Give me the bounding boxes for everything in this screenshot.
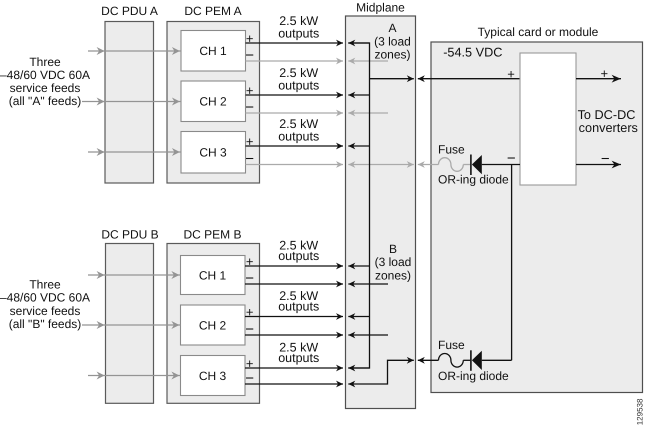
box CH3 PEM A <box>181 132 246 174</box>
label plus left <box>507 66 515 81</box>
svg-text:DC PDU A: DC PDU A <box>101 4 158 18</box>
wire service feed B3 <box>88 372 181 380</box>
svg-text:Fuse: Fuse <box>438 338 465 352</box>
svg-text:CH 3: CH 3 <box>199 369 227 383</box>
wire CH1 B minus output <box>245 270 388 287</box>
svg-text:CH 2: CH 2 <box>199 95 227 109</box>
svg-text:129538: 129538 <box>636 398 645 425</box>
svg-text:Fuse: Fuse <box>438 142 465 156</box>
wire CH1 B plus output <box>245 254 370 269</box>
svg-text:To DC-DC: To DC-DC <box>578 108 636 122</box>
wire CH1 A plus output <box>246 31 370 46</box>
svg-text:CH 2: CH 2 <box>199 318 227 332</box>
svg-text:(all "B" feeds): (all "B" feeds) <box>9 317 82 331</box>
diode A OR-ing <box>438 155 520 187</box>
svg-text:outputs: outputs <box>278 27 319 41</box>
svg-text:(all "A" feeds): (all "A" feeds) <box>9 94 82 108</box>
box CH1 PEM A <box>181 31 246 72</box>
svg-text:−: − <box>245 47 254 64</box>
label 2.5 kW outputs at 368 <box>278 340 319 365</box>
label DC PEM B <box>183 228 241 242</box>
label minus left <box>507 150 516 167</box>
svg-text:Midplane: Midplane <box>356 1 405 15</box>
wire CH3 A minus output <box>245 151 438 168</box>
wire midplane A output to card plus <box>370 75 521 82</box>
label -54.5 VDC <box>443 45 502 59</box>
svg-text:OR-ing diode: OR-ing diode <box>438 369 509 383</box>
label DC PDU A <box>101 4 158 18</box>
label 2.5 kW outputs at 146 <box>278 117 319 143</box>
svg-text:+: + <box>246 31 254 46</box>
svg-text:−: − <box>245 321 254 338</box>
wire service feed B1 <box>88 271 181 279</box>
label Midplane <box>356 1 405 15</box>
wire card plus output <box>576 66 621 83</box>
svg-text:−: − <box>245 99 254 116</box>
label 2.5 kW outputs at 316.5 <box>278 289 319 314</box>
label figure number 129538 <box>636 398 645 425</box>
svg-text:service feeds: service feeds <box>10 81 81 95</box>
fuse B <box>438 338 470 367</box>
box midplane <box>346 16 416 409</box>
label To DC-DC converters <box>578 108 638 135</box>
svg-text:B: B <box>389 242 397 256</box>
label Typical card or module <box>478 25 599 39</box>
box CH2 PEM A <box>181 81 246 122</box>
svg-text:Three: Three <box>29 278 61 292</box>
svg-text:−: − <box>245 151 254 168</box>
svg-text:−: − <box>245 270 254 287</box>
label DC PEM A <box>184 4 241 18</box>
node zone A label <box>374 21 411 61</box>
svg-text:CH 3: CH 3 <box>199 146 227 160</box>
wire service feed A1 <box>88 47 181 55</box>
label DC PDU B <box>101 228 158 242</box>
wire CH3 A plus output <box>246 134 370 149</box>
wire CH2 A plus output <box>246 83 370 98</box>
svg-text:−: − <box>245 370 254 387</box>
svg-text:DC PEM A: DC PEM A <box>184 4 241 18</box>
svg-text:outputs: outputs <box>278 300 319 314</box>
box CH1 PEM B <box>181 256 246 295</box>
svg-text:OR-ing diode: OR-ing diode <box>438 173 509 187</box>
svg-text:+: + <box>507 66 515 81</box>
svg-text:outputs: outputs <box>278 130 319 144</box>
wire card minus output <box>576 150 621 168</box>
wire CH2 B minus output <box>245 321 388 338</box>
node zone B label <box>375 242 412 282</box>
svg-text:+: + <box>246 305 254 320</box>
wire CH1 A minus output <box>245 47 388 64</box>
svg-text:outputs: outputs <box>278 79 319 93</box>
svg-text:–48/60 VDC 60A: –48/60 VDC 60A <box>0 68 90 82</box>
svg-text:(3 load: (3 load <box>374 34 411 48</box>
svg-text:outputs: outputs <box>278 351 319 365</box>
box DC PDU B <box>106 244 154 404</box>
svg-text:A: A <box>388 21 396 35</box>
box CH2 PEM B <box>181 305 246 345</box>
wire CH3 B minus output <box>245 357 439 388</box>
svg-text:Three: Three <box>29 55 61 69</box>
diode B OR-ing <box>438 350 512 383</box>
svg-text:(3 load: (3 load <box>375 255 412 269</box>
svg-text:converters: converters <box>579 121 638 135</box>
svg-text:–48/60 VDC 60A: –48/60 VDC 60A <box>0 291 90 305</box>
box typical card <box>431 42 643 393</box>
wire CH2 B plus output <box>245 305 370 320</box>
svg-text:service feeds: service feeds <box>10 304 81 318</box>
label 2.5 kW outputs at 266 <box>278 238 319 263</box>
svg-text:+: + <box>246 356 254 371</box>
svg-text:-54.5 VDC: -54.5 VDC <box>443 45 502 59</box>
label three A feeds <box>0 55 90 108</box>
wire midplane plus bus <box>348 43 369 368</box>
wire CH2 A minus output <box>245 99 388 116</box>
wire OR junction vertical <box>511 165 513 361</box>
svg-text:Typical card or module: Typical card or module <box>478 25 599 39</box>
svg-text:zones): zones) <box>374 47 410 61</box>
svg-text:outputs: outputs <box>278 249 319 263</box>
label three B feeds <box>0 278 90 332</box>
svg-text:zones): zones) <box>375 268 411 282</box>
label 2.5 kW outputs at 95 <box>278 66 319 92</box>
svg-text:+: + <box>246 254 254 269</box>
wire service feed B2 <box>82 321 181 329</box>
box DC PEM B <box>167 244 260 404</box>
svg-text:−: − <box>601 150 610 167</box>
wire service feed A2 <box>82 98 181 106</box>
wire CH3 B plus output <box>245 356 370 371</box>
box DC-DC input <box>520 53 576 185</box>
label 2.5 kW outputs at 43 <box>278 14 319 40</box>
svg-text:+: + <box>601 66 609 81</box>
svg-text:DC PEM B: DC PEM B <box>183 228 241 242</box>
svg-text:CH 1: CH 1 <box>199 44 227 58</box>
wire service feed A3 <box>88 148 181 156</box>
svg-text:CH 1: CH 1 <box>199 268 227 282</box>
box DC PEM A <box>167 22 260 184</box>
box CH3 PEM B <box>181 356 246 396</box>
box DC PDU A <box>105 22 154 184</box>
svg-text:DC PDU B: DC PDU B <box>101 228 158 242</box>
fuse A <box>438 142 470 171</box>
svg-text:+: + <box>246 83 254 98</box>
svg-text:+: + <box>246 134 254 149</box>
